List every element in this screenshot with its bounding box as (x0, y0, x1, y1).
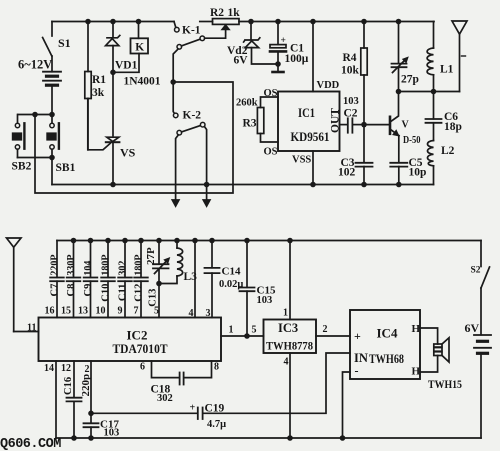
capacitor C15 103 (240, 241, 276, 337)
inductor L2 (428, 141, 455, 185)
svg-text:L2: L2 (441, 145, 455, 157)
svg-text:VDD: VDD (317, 80, 340, 91)
node junction R1 top (85, 19, 91, 25)
diode VD1 1N4001 (106, 22, 161, 88)
switch S2 (471, 241, 490, 289)
svg-text:260k: 260k (236, 98, 258, 109)
svg-text:14: 14 (44, 363, 54, 374)
wire IC2 pin1 to IC3 pin5 (221, 335, 264, 337)
svg-text:OS: OS (264, 88, 278, 99)
svg-text:10k: 10k (341, 65, 360, 77)
svg-text:27P: 27P (145, 247, 157, 265)
svg-text:OUT: OUT (330, 108, 342, 133)
capacitor C1 100u (270, 22, 309, 66)
svg-text:1: 1 (229, 325, 234, 336)
node junction C16 ground (71, 435, 77, 441)
IC chip U4: IC4 TWH68 box (350, 310, 421, 379)
wire SB bottom rail (18, 157, 53, 159)
svg-text:C12: C12 (134, 284, 145, 302)
node junction C9 (88, 238, 94, 244)
svg-text:180P: 180P (101, 254, 112, 275)
wire IC1 VSS (312, 151, 314, 185)
relay contact K-1 (173, 22, 230, 83)
svg-text:103: 103 (104, 428, 120, 439)
node junction C13 (156, 238, 162, 244)
node junction IC3 pin1 (287, 238, 293, 244)
svg-text:1k: 1k (228, 7, 241, 19)
capacitor C11 302 pin9 (118, 241, 132, 318)
speaker TWH15 (428, 338, 462, 391)
battery B2 6V (465, 288, 492, 438)
capacitor C14 0.02u (pin 3) (205, 241, 244, 320)
svg-text:4.7μ: 4.7μ (207, 419, 226, 430)
capacitor C17 103 (84, 413, 120, 438)
wire SB1 to ground bus (51, 158, 53, 185)
potentiometer R2 1k (200, 7, 240, 25)
svg-text:IC2: IC2 (127, 328, 148, 343)
node junction C15 on pin1 wire (244, 333, 250, 339)
resistor R1 (85, 22, 107, 150)
node junction SB1 bottom (49, 155, 55, 161)
svg-text:L1: L1 (440, 64, 454, 76)
svg-text:OS: OS (264, 147, 278, 158)
svg-text:C13: C13 (147, 289, 158, 307)
capacitor C6 18p (426, 92, 462, 141)
wire SB top rail (18, 114, 52, 116)
node junction VD1/K/VS (110, 70, 116, 76)
svg-text:R3: R3 (243, 118, 257, 130)
wire ground bus section 1 (52, 184, 434, 186)
svg-text:104: 104 (83, 261, 94, 276)
node junction K-2 arm on ground bus (204, 182, 210, 188)
zener diode Vd2 6V (227, 22, 278, 67)
svg-text:103: 103 (257, 295, 273, 306)
wire to antenna stem (434, 91, 460, 93)
svg-text:11: 11 (27, 323, 36, 334)
svg-text:+: + (190, 403, 196, 414)
svg-text:H: H (412, 323, 421, 335)
svg-text:VS: VS (120, 146, 136, 160)
capacitor C2 103 (340, 96, 365, 133)
svg-text:TDA7010T: TDA7010T (113, 342, 169, 356)
inductor L3 (159, 241, 197, 284)
node junction L1/C6/antenna (431, 89, 437, 95)
svg-text:C9: C9 (83, 284, 94, 297)
svg-text:C19: C19 (205, 403, 225, 415)
node junction pin4 wire (192, 238, 198, 244)
svg-text:KD9561: KD9561 (291, 129, 330, 144)
svg-text:C10: C10 (101, 284, 112, 302)
pushbutton SB2 (12, 115, 32, 173)
wire IC4 H bottom to speaker (420, 356, 438, 373)
antenna ANT2 (7, 238, 22, 332)
svg-text:3k: 3k (92, 87, 105, 99)
svg-text:5: 5 (252, 325, 257, 336)
switch S1 (43, 22, 71, 57)
svg-text:13: 13 (78, 306, 88, 317)
svg-text:SB1: SB1 (56, 162, 76, 174)
svg-text:K-1: K-1 (182, 25, 201, 37)
node junction C3 on ground bus (361, 182, 367, 188)
svg-text:18p: 18p (444, 121, 462, 133)
capacitor C7 220P pin16 (45, 241, 64, 318)
svg-text:6: 6 (140, 362, 145, 373)
trimmer capacitor C13 27P pin5 (145, 241, 169, 318)
node junction relay K top (136, 19, 142, 25)
svg-text:TWH8778: TWH8778 (266, 341, 313, 353)
svg-text:9: 9 (118, 306, 123, 317)
antenna ANT1 (452, 21, 467, 92)
node junction C10 (105, 238, 111, 244)
node junction IC1 VDD (310, 19, 316, 25)
node junction battery minus (49, 112, 55, 118)
wire collector node to L1 node (399, 91, 434, 93)
resistor R3 260k with OS wires (236, 88, 278, 158)
svg-text:7: 7 (134, 306, 139, 317)
capacitor C5 10p (390, 157, 426, 185)
wire ground bus section 2 (56, 437, 481, 439)
node junction VS cathode on ground bus (110, 182, 116, 188)
svg-text:102: 102 (338, 167, 356, 179)
relay coil K (113, 22, 148, 73)
node junction VSS on ground bus (310, 182, 316, 188)
svg-text:S2: S2 (471, 266, 481, 276)
svg-text:2: 2 (85, 364, 90, 375)
node junction C13/L3 bottom (156, 281, 162, 287)
capacitor C16 220p (pin 12) (61, 361, 92, 438)
node junction IC4 minus ground (340, 435, 346, 441)
node junction C17 ground (88, 435, 94, 441)
svg-text:12: 12 (61, 363, 71, 374)
wire base node to transistor (364, 124, 389, 126)
svg-text:TWH15: TWH15 (428, 377, 462, 391)
svg-text:+: + (354, 329, 361, 343)
node junction C8 (71, 238, 77, 244)
node junction C5 on ground bus (396, 182, 402, 188)
svg-text:K: K (135, 42, 144, 54)
node junction base node (361, 122, 367, 128)
svg-text:Q606.COM: Q606.COM (0, 437, 61, 451)
node junction C15 (244, 238, 250, 244)
node junction C1 bottom (275, 61, 281, 67)
svg-text:220P: 220P (50, 254, 61, 275)
node junction K-1 lower / K-2 branch (170, 79, 176, 85)
wire IC2 pin 4 (194, 241, 196, 318)
svg-text:R1: R1 (92, 74, 106, 86)
wire IC3 pin1 (289, 241, 291, 320)
svg-text:15: 15 (61, 306, 71, 317)
svg-text:100μ: 100μ (285, 53, 309, 65)
svg-text:4: 4 (284, 357, 289, 368)
svg-text:+: + (281, 36, 286, 46)
svg-text:180P: 180P (134, 254, 145, 275)
svg-text:IC3: IC3 (278, 321, 298, 335)
svg-text:C8: C8 (66, 284, 77, 297)
svg-text:16: 16 (45, 306, 55, 317)
svg-text:-: - (355, 364, 359, 378)
wire IC4 IN loop with C19 (204, 353, 350, 413)
capacitor C3 102 (338, 125, 373, 185)
op-amp U1: IC1 KD9561 box (278, 92, 342, 152)
svg-text:TWH68: TWH68 (369, 352, 404, 366)
wire IC3 pin4 to ground (289, 353, 291, 438)
svg-text:5: 5 (154, 306, 159, 317)
IC chip U3: IC3 TWH8778 box (264, 320, 317, 354)
trimmer capacitor 27p (392, 22, 419, 92)
svg-text:330P: 330P (66, 254, 77, 275)
node junction C11 (122, 238, 128, 244)
svg-text:10p: 10p (409, 167, 427, 179)
svg-text:10: 10 (96, 306, 106, 317)
svg-text:1N4001: 1N4001 (124, 76, 161, 88)
node junction Vd2 top (248, 19, 254, 25)
capacitor C9 104 pin13 (78, 241, 97, 318)
wire IC3 pin2 to IC4 (316, 335, 350, 337)
svg-text:2: 2 (323, 324, 328, 335)
node junction collector top (396, 89, 402, 95)
capacitor C12 180P pin7 (134, 241, 148, 318)
node junction C1 top (275, 19, 281, 25)
svg-text:S1: S1 (58, 36, 71, 50)
node junction VD1 top (110, 19, 116, 25)
svg-text:C11: C11 (118, 284, 129, 302)
svg-text:8: 8 (214, 362, 219, 373)
svg-text:VD1: VD1 (115, 60, 138, 72)
svg-text:6V: 6V (234, 55, 249, 67)
capacitor C19 4.7u electrolytic (91, 403, 226, 431)
svg-text:R2: R2 (210, 7, 224, 19)
node junction IC3 pin4 ground (287, 435, 293, 441)
svg-text:C2: C2 (344, 108, 358, 120)
svg-text:SB2: SB2 (12, 161, 32, 173)
svg-text:C7: C7 (50, 284, 61, 297)
wire IC2 pin 14 (55, 361, 57, 438)
svg-text:K-2: K-2 (183, 110, 202, 122)
node junction L3 (174, 238, 180, 244)
IC chip U2: IC2 TDA7010T box (39, 318, 222, 362)
svg-text:1: 1 (283, 308, 288, 319)
svg-text:6~12V: 6~12V (18, 58, 52, 72)
node junction C12 (138, 238, 144, 244)
capacitor C18 302 between pins 6 and 8 (140, 361, 219, 404)
svg-text:302: 302 (157, 393, 173, 404)
resistor R4 10k (341, 22, 367, 125)
thyristor VS (88, 72, 136, 184)
wire IC1 VDD (312, 22, 314, 92)
svg-text:VSS: VSS (292, 155, 311, 166)
wire antenna to IC2 pin 11 (14, 331, 39, 333)
wire IC2 pin 2 (90, 361, 92, 413)
wire top supply bus right segment (239, 21, 434, 23)
node junction IN wire to IC2 pin2 (88, 411, 94, 417)
relay contact K-2 (172, 82, 211, 207)
node junction loop drop (32, 112, 38, 118)
inductor L1 (427, 22, 454, 92)
svg-text:V: V (402, 120, 410, 131)
svg-text:IC1: IC1 (298, 105, 315, 120)
node junction trimmer 27p top (396, 19, 402, 25)
wire IC4 H top to speaker (420, 328, 438, 344)
wire big loop (battery minus to K-2 bypass) (35, 82, 233, 193)
svg-text:IC4: IC4 (377, 326, 398, 341)
pushbutton SB1 (46, 117, 75, 175)
node junction R4 top (361, 19, 367, 25)
ground under C1 (273, 64, 284, 72)
wire top supply bus left segment (52, 21, 174, 23)
svg-text:C16: C16 (63, 377, 74, 395)
svg-text:302: 302 (118, 261, 129, 276)
wire IC4 minus to ground (343, 372, 351, 438)
svg-text:C14: C14 (222, 266, 241, 278)
wire supply bus section 2 (57, 240, 481, 242)
node junction C14 (209, 238, 215, 244)
svg-text:R4: R4 (343, 52, 357, 64)
svg-text:D-50: D-50 (403, 135, 421, 146)
transistor Q1 V D-50 (390, 92, 421, 163)
capacitor C8 330P pin15 (61, 241, 80, 318)
svg-text:103: 103 (343, 96, 359, 107)
battery B1 6~12V (18, 56, 61, 115)
capacitor C10 180P pin10 (96, 241, 115, 318)
svg-text:6V: 6V (465, 321, 480, 335)
svg-text:27p: 27p (401, 74, 419, 86)
